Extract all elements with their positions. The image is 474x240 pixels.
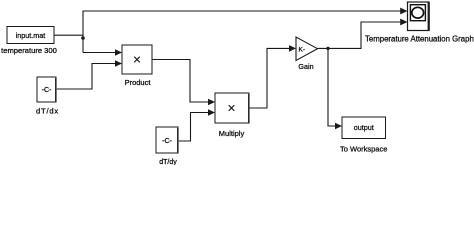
svg-text:Gain: Gain [298, 62, 313, 71]
gain block Gain (triangle) [296, 37, 318, 61]
svg-text:To Workspace: To Workspace [340, 145, 387, 154]
wire Product output to Multiply input 1 [152, 60, 209, 103]
svg-text:-C-: -C- [42, 87, 52, 94]
node gain output junction [326, 47, 329, 50]
svg-text:K-: K- [299, 47, 306, 54]
constant block -C- (dT/dy) [156, 127, 179, 153]
wire Gain output to scope input 2 [318, 22, 403, 48]
product block Product [122, 45, 152, 74]
wire dT/dy constant to Multiply input 2 [179, 113, 209, 142]
wire junction up and right to scope input 1 [83, 11, 403, 53]
svg-text:dT/dx: dT/dx [36, 107, 59, 116]
scope block Temperature Attenuation Graph [408, 2, 430, 31]
sink block output [342, 117, 386, 139]
wire Multiply output to Gain input [250, 48, 290, 108]
product block Multiply [215, 93, 250, 123]
wire junction down to output block [328, 48, 336, 126]
svg-text:output: output [354, 123, 374, 132]
constant block -C- (dT/dx) [37, 77, 57, 102]
source block input.mat [7, 27, 54, 44]
svg-text:Product: Product [125, 78, 152, 87]
svg-text:-C-: -C- [162, 138, 172, 145]
svg-text:input.mat: input.mat [16, 31, 46, 40]
svg-text:dT/dy: dT/dy [159, 159, 177, 165]
svg-text:Multiply: Multiply [219, 129, 245, 138]
svg-text:Temperature Attenuation Graph: Temperature Attenuation Graph [365, 35, 474, 44]
wire junction down to Product input 1 [83, 52, 116, 54]
wire dT/dx constant to Product input 2 [57, 64, 116, 90]
wire input.mat to junction [54, 34, 83, 36]
node branch junction [81, 36, 85, 40]
svg-text:temperature 300: temperature 300 [1, 46, 57, 55]
